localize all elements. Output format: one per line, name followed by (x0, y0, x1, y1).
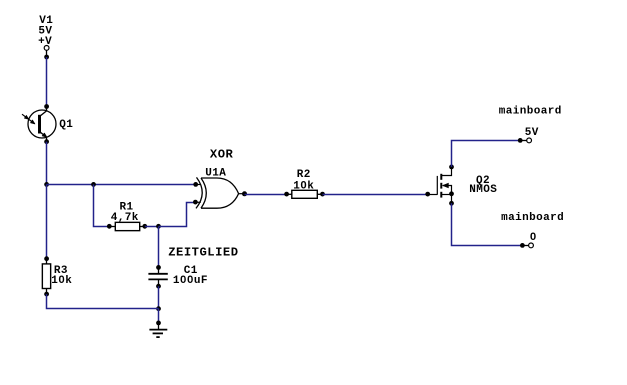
pin dot 0 terminal (520, 243, 525, 248)
svg-text:Q1: Q1 (59, 119, 73, 131)
wire node A down to R3 (46, 185, 48, 259)
pin dot XOR input 2 (193, 200, 198, 205)
label 5V (V1 value) (38, 25, 52, 37)
svg-text:mainboard: mainboard (501, 212, 564, 224)
label 10k (R2 value) (293, 181, 314, 193)
pin dot R2 left (284, 192, 289, 197)
label 0 (terminal) (530, 232, 537, 244)
label 100uF (C1 value) (173, 275, 208, 287)
svg-text:5V: 5V (525, 127, 539, 139)
junction node A (emitter rail) (44, 182, 49, 187)
label 10k (R3 value) (51, 275, 72, 287)
pin dot C1 top (156, 265, 161, 270)
junction node B on rail (91, 182, 96, 187)
pin dot XOR output (242, 191, 247, 196)
label XOR (210, 148, 234, 162)
pin dot Q2 source (449, 201, 454, 206)
svg-text:NMOS: NMOS (469, 184, 497, 196)
pin dot 5V terminal (518, 138, 523, 143)
svg-text:ZEITGLIED: ZEITGLIED (168, 245, 238, 259)
wire R3 bottom to node D (47, 294, 159, 308)
pin dot Q1 emitter (44, 139, 49, 144)
wire node D to ground (158, 309, 160, 323)
power terminal V1 +V (44, 46, 49, 58)
capacitor C1 (148, 267, 167, 286)
pin dot ground (156, 321, 161, 326)
pin dot R3 top (44, 256, 49, 261)
wire XOR output to R2 (245, 194, 287, 196)
terminal 0 mainboard (522, 243, 533, 248)
svg-text:XOR: XOR (210, 148, 234, 162)
label mainboard (bottom) (501, 212, 564, 224)
label 5V (terminal) (525, 127, 539, 139)
label U1A (205, 167, 226, 179)
wire R2 to Q2 gate (323, 194, 428, 196)
label R3 (54, 265, 68, 277)
wire V1 to Q1 collector (46, 57, 48, 107)
label mainboard (top) (499, 106, 562, 118)
pin dot C1 bottom (156, 284, 161, 289)
resistor R2 (287, 190, 323, 198)
label NMOS (469, 184, 497, 196)
pin dot R1 left (107, 224, 112, 229)
label C1 (184, 265, 198, 277)
label Q2 (476, 175, 490, 187)
label R1 (120, 201, 134, 213)
label R2 (297, 169, 311, 181)
wire node A to XOR top input (47, 184, 196, 186)
pin dot R2 right (320, 192, 325, 197)
xor gate U1A (195, 177, 244, 208)
junction node C (ZEITGLIED node) (156, 224, 161, 229)
pin dot V1 (44, 55, 49, 60)
wire C1 bottom to node D (158, 286, 160, 308)
svg-text:R2: R2 (297, 169, 311, 181)
pin dot Q2 gate (425, 192, 430, 197)
nmos transistor Q2 (428, 167, 452, 203)
pin dot XOR input 1 (193, 182, 198, 187)
resistor R3 (42, 259, 50, 294)
wire node C down to C1 (158, 227, 160, 268)
phototransistor Q1 (22, 107, 56, 142)
wire Q1 emitter to node A (46, 142, 48, 185)
ground (149, 323, 167, 337)
label ZEITGLIED (168, 245, 238, 259)
pin dot Q1 collector (44, 104, 49, 109)
svg-text:mainboard: mainboard (499, 106, 562, 118)
resistor R1 (109, 222, 145, 230)
wire R1 right to node C (145, 226, 159, 228)
terminal 5V mainboard (520, 138, 531, 143)
label 4,7k (R1 value) (111, 212, 139, 224)
junction node D (ground rail) (156, 306, 161, 311)
wire node B down to R1 left (94, 185, 110, 227)
pin dot R3 bottom (44, 292, 49, 297)
label +V (net name) (38, 36, 52, 48)
label Q1 (59, 119, 73, 131)
pin dot Q2 drain (449, 165, 454, 170)
junction dot Q2 source-body (449, 191, 454, 196)
pin dot R1 right (142, 224, 147, 229)
wire node C to XOR bottom input (159, 203, 196, 227)
label V1 (39, 15, 53, 27)
wire Q2 drain to 5V terminal (452, 141, 521, 167)
wire Q2 source to 0 terminal (452, 203, 523, 245)
